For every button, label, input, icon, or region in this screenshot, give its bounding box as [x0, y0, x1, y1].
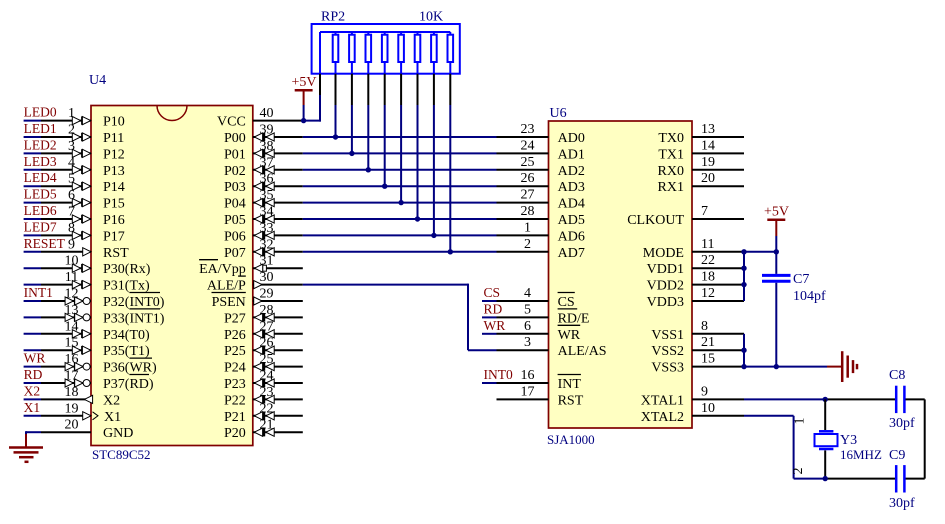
- U4 pin 24 (P23) stub: [253, 382, 303, 384]
- node LED3 net label: [24, 154, 57, 169]
- U4 pin name P03: [224, 180, 246, 195]
- U4 pin 20 (GND) stub: [41, 431, 91, 433]
- svg-text:LED7: LED7: [24, 219, 57, 234]
- node LED4 net label: [24, 170, 57, 185]
- svg-text:P32(INT0): P32(INT0): [103, 295, 165, 310]
- svg-text:20: 20: [701, 171, 715, 186]
- wire RP2 common lead down: [319, 32, 321, 122]
- U4 pin name P26: [224, 328, 246, 343]
- U6 pin number 14: [701, 138, 715, 153]
- U4 pin number 28: [260, 303, 274, 318]
- C8 designator label: [889, 368, 905, 383]
- wire crystal top to C8: [825, 398, 895, 400]
- node INT0 net label: [484, 367, 513, 382]
- wire net LED3 left: [24, 169, 41, 171]
- svg-text:16MHZ: 16MHZ: [840, 447, 882, 462]
- U4 pin 22 (P21) stub: [253, 415, 303, 417]
- junction XTAL1/crystal: [823, 397, 828, 402]
- RP2 common bus wire: [320, 31, 450, 33]
- node LED1 net label: [24, 121, 57, 136]
- U4 pin number 40: [260, 106, 274, 121]
- svg-text:18: 18: [701, 270, 715, 285]
- junction RP2 lead 7 on data bus: [431, 233, 436, 238]
- wire net pin 10 left: [24, 267, 41, 269]
- U4 pin 10 (P30(Rx)) stub: [41, 267, 91, 269]
- wire RP2 element 8 lead down: [449, 74, 451, 252]
- U6 pin name TX0: [658, 131, 684, 146]
- svg-text:P34(T0): P34(T0): [103, 328, 150, 343]
- svg-text:CLKOUT: CLKOUT: [627, 213, 684, 228]
- junction RP2 lead 6 on data bus: [415, 216, 420, 221]
- U4 pin number 21: [260, 418, 274, 433]
- resistor pack RP2 outline: [312, 24, 460, 74]
- overbar INT0 in P32: [129, 292, 160, 294]
- svg-text:VSS2: VSS2: [651, 344, 684, 359]
- svg-text:9: 9: [68, 237, 75, 252]
- power +5V symbol (right): [764, 205, 789, 252]
- junction RP2 lead 8 on data bus: [448, 249, 453, 254]
- U4 pin 14 IO arrows: [72, 330, 90, 338]
- U4 pin number 37: [260, 155, 274, 170]
- C8 value 30pf: [889, 416, 915, 431]
- svg-text:LED4: LED4: [24, 170, 57, 185]
- svg-text:11: 11: [701, 237, 714, 252]
- wire data bus P03 to AD3: [303, 185, 497, 187]
- svg-text:P33(INT1): P33(INT1): [103, 311, 165, 326]
- svg-text:+5V: +5V: [764, 205, 789, 220]
- U6 pin name VSS2: [651, 344, 684, 359]
- U4 pin number 7: [68, 205, 75, 220]
- svg-text:LED6: LED6: [24, 203, 57, 218]
- U4 pin number 18: [65, 385, 79, 400]
- svg-text:7: 7: [701, 204, 708, 219]
- svg-text:SJA1000: SJA1000: [547, 432, 595, 447]
- U4 pin 7 (P16) stub: [41, 218, 91, 220]
- wire net pin 13 left: [24, 316, 41, 318]
- junction RP2 lead 3 on data bus: [366, 167, 371, 172]
- U6 pin number 7: [701, 204, 708, 219]
- U6 pin 26 (AD3) stub: [497, 185, 549, 187]
- U4 pin 25 IO arrows: [254, 362, 274, 370]
- U6 pin 9 (XTAL1) stub: [692, 398, 744, 400]
- U6 pin name RX0: [658, 164, 684, 179]
- wire data bus P01 to AD1: [303, 152, 497, 154]
- U4 pin 17 IO arrows and bubble: [65, 379, 90, 387]
- U4 pin name P15: [103, 197, 125, 212]
- svg-text:U4: U4: [89, 73, 106, 88]
- U4 pin 37 (P02) stub: [253, 169, 303, 171]
- svg-text:9: 9: [701, 384, 708, 399]
- U4 pin number 24: [260, 369, 274, 384]
- svg-text:20: 20: [65, 418, 79, 433]
- U6 pin number 1: [524, 220, 531, 235]
- U4 pin number 2: [68, 123, 75, 138]
- U4 designator label: [89, 73, 106, 88]
- svg-text:15: 15: [701, 352, 715, 367]
- ground symbol left (U4 GND): [9, 434, 43, 462]
- wire net LED4 left: [24, 185, 41, 187]
- U4 pin 23 IO arrows: [254, 395, 274, 403]
- U4 pin name P25: [224, 344, 246, 359]
- U4 pin number 16: [65, 352, 79, 367]
- wire data bus P06 to AD6: [303, 234, 497, 236]
- U4 pin 33 IO arrows: [254, 231, 274, 239]
- junction VDD2 row bus: [741, 282, 746, 287]
- C7 designator label: [793, 272, 809, 287]
- U4 pin name P22: [224, 393, 246, 408]
- U4 pin 2 IO arrows: [72, 133, 90, 141]
- svg-text:GND: GND: [103, 426, 133, 441]
- svg-text:P21: P21: [224, 410, 246, 425]
- U4 pin number 12: [65, 287, 79, 302]
- U6 pin name AD2: [558, 164, 585, 179]
- U4 pin 26 IO arrows: [254, 346, 274, 354]
- svg-text:CS: CS: [484, 285, 501, 300]
- U6 pin number 24: [521, 138, 535, 153]
- U4 pin 29 output arrow: [254, 297, 262, 305]
- U4 pin number 35: [260, 188, 274, 203]
- U6 pin number 16: [521, 368, 535, 383]
- svg-text:P35(T1): P35(T1): [103, 344, 150, 359]
- U4 pin 38 IO arrows: [254, 149, 274, 157]
- svg-text:P20: P20: [224, 426, 246, 441]
- U4 pin 2 (P11) stub: [41, 136, 91, 138]
- U6 pin number 22: [701, 253, 715, 268]
- U6 pin name INT: [558, 377, 582, 392]
- U4 pin name P23: [224, 377, 246, 392]
- wire RP2 element 4 lead down: [384, 74, 386, 187]
- U6 pin number 9: [701, 384, 708, 399]
- U4 pin name P07: [224, 246, 246, 261]
- U4 pin 3 (P12) stub: [41, 152, 91, 154]
- svg-text:LED2: LED2: [24, 137, 57, 152]
- svg-text:10K: 10K: [419, 10, 443, 25]
- U4 pin 21 (P20) stub: [253, 431, 303, 433]
- U6 pin name AD1: [558, 147, 585, 162]
- U4 pin number 26: [260, 336, 274, 351]
- U6 pin number 3: [524, 335, 531, 350]
- U4 pin 28 IO arrows: [254, 313, 274, 321]
- wire net LED0 left: [24, 120, 41, 122]
- U6 pin 6 (WR) stub: [497, 333, 549, 335]
- svg-text:17: 17: [521, 384, 535, 399]
- op-amp U6 IC body SJA1000 outline: [549, 121, 693, 428]
- wire right vertical C8 to C9: [924, 399, 926, 478]
- svg-text:4: 4: [524, 286, 531, 301]
- svg-text:P30(Rx): P30(Rx): [103, 262, 151, 277]
- wire RP2 element 2 lead down: [351, 74, 353, 154]
- svg-text:P27: P27: [224, 311, 246, 326]
- U4 pin 27 IO arrows: [254, 330, 274, 338]
- wire net pin 11 left: [24, 284, 41, 286]
- U4 pin 6 IO arrows: [72, 198, 90, 206]
- wire VSS bus vertical: [743, 334, 745, 367]
- U4 pin name P10: [103, 115, 125, 130]
- wire data bus P05 to AD5: [303, 218, 497, 220]
- U6 pin name AD7: [558, 246, 585, 261]
- capacitor C9: [825, 465, 925, 492]
- U4 pin number 23: [260, 385, 274, 400]
- svg-text:VSS1: VSS1: [651, 328, 684, 343]
- U4 pin 27 (P26) stub: [253, 333, 303, 335]
- U6 pin name CS: [558, 295, 575, 310]
- U6 pin 10 (XTAL2) stub: [692, 415, 744, 417]
- U4 pin number 5: [68, 172, 75, 187]
- node X2 net label: [24, 383, 40, 398]
- junction crystal bottom: [823, 476, 828, 481]
- svg-text:104pf: 104pf: [793, 289, 826, 304]
- U4 pin 11 (P31(Tx)) stub: [41, 284, 91, 286]
- svg-text:C8: C8: [889, 368, 905, 383]
- ground symbol right (VSS): [827, 351, 857, 382]
- U4 pin number 25: [260, 352, 274, 367]
- svg-text:P10: P10: [103, 115, 125, 130]
- U6 pin number 2: [524, 237, 531, 252]
- U6 pin 24 (AD1) stub: [497, 152, 549, 154]
- svg-text:8: 8: [701, 319, 708, 334]
- U6 pin 12 (VDD3) stub: [692, 300, 744, 302]
- U6 pin name WR: [558, 328, 581, 343]
- svg-text:XTAL1: XTAL1: [641, 393, 684, 408]
- svg-text:28: 28: [521, 204, 535, 219]
- U4 pin name P24: [224, 361, 246, 376]
- U4 pin 12 IO arrows and bubble: [65, 297, 90, 305]
- svg-text:26: 26: [521, 171, 535, 186]
- node RD net label: [24, 367, 43, 382]
- U6 pin 1 (AD6) stub: [497, 234, 549, 236]
- U6 pin 2 (AD7) stub: [497, 251, 549, 253]
- U6 pin number 27: [521, 188, 535, 203]
- RP2 value 10K: [419, 10, 443, 25]
- U4 pin name P35(T1): [103, 344, 150, 359]
- U4 pin number 34: [260, 205, 274, 220]
- svg-text:VDD1: VDD1: [647, 262, 684, 277]
- svg-text:P04: P04: [224, 197, 246, 212]
- power +5V symbol (left, VCC): [292, 75, 317, 121]
- U4 pin 15 IO arrows: [72, 346, 90, 354]
- U6 pin 15 (VSS3) stub: [692, 366, 744, 368]
- U4 pin name P12: [103, 147, 125, 162]
- U6 pin 25 (AD2) stub: [497, 169, 549, 171]
- U4 pin name P17: [103, 229, 125, 244]
- U4 pin 19 clock arrow: [83, 412, 98, 420]
- wire RP2 element 7 lead down: [433, 74, 435, 236]
- svg-text:P15: P15: [103, 197, 125, 212]
- U6 pin number 28: [521, 204, 535, 219]
- RP2 designator label: [321, 10, 345, 25]
- U6 designator label: [550, 106, 567, 121]
- U6 pin number 21: [701, 335, 715, 350]
- U6 pin 21 (VSS2) stub: [692, 349, 744, 351]
- U6 pin 7 (CLKOUT) stub: [692, 218, 744, 220]
- U6 pin name RX1: [658, 180, 684, 195]
- svg-text:LED5: LED5: [24, 187, 57, 202]
- U6 pin 27 (AD4) stub: [497, 202, 549, 204]
- U4 pin 39 (P00) stub: [253, 136, 303, 138]
- U4 pin number 4: [68, 155, 75, 170]
- svg-text:PSEN: PSEN: [212, 295, 246, 310]
- U4 pin name P16: [103, 213, 125, 228]
- U6 pin name TX1: [658, 147, 684, 162]
- svg-text:P05: P05: [224, 213, 246, 228]
- svg-text:24: 24: [521, 138, 535, 153]
- U4 pin name X1: [104, 410, 121, 425]
- svg-text:P11: P11: [103, 131, 124, 146]
- svg-text:X2: X2: [24, 383, 40, 398]
- U4 pin 32 (P07) stub: [253, 251, 303, 253]
- U6 pin name AD6: [558, 229, 585, 244]
- U6 pin 20 (RX1) stub: [692, 185, 744, 187]
- svg-text:19: 19: [701, 155, 715, 170]
- svg-text:AD4: AD4: [558, 197, 585, 212]
- U4 pin 4 (P13) stub: [41, 169, 91, 171]
- U6 pin name XTAL2: [641, 410, 684, 425]
- svg-text:RD: RD: [484, 301, 503, 316]
- U4 pin 39 IO arrows: [254, 133, 274, 141]
- U4 pin number 20: [65, 418, 79, 433]
- U4 pin 34 (P05) stub: [253, 218, 303, 220]
- U4 pin number 19: [65, 401, 79, 416]
- wire net LED6 left: [24, 218, 41, 220]
- svg-text:P07: P07: [224, 246, 246, 261]
- U4 pin 12 (P32(INT0)) stub: [41, 300, 91, 302]
- svg-text:TX0: TX0: [658, 131, 684, 146]
- U6 pin name AD4: [558, 197, 585, 212]
- svg-text:ALE/P: ALE/P: [207, 279, 246, 294]
- U4 pin number 36: [260, 172, 274, 187]
- U4 pin number 22: [260, 401, 274, 416]
- capacitor C7: [762, 252, 791, 367]
- svg-text:P16: P16: [103, 213, 125, 228]
- svg-text:AD5: AD5: [558, 213, 585, 228]
- junction RP2 lead 5 on data bus: [398, 200, 403, 205]
- wire ALE/P to ALE/AS: [303, 284, 497, 351]
- U6 pin name AD5: [558, 213, 585, 228]
- U6 pin name VSS1: [651, 328, 684, 343]
- U6 pin number 20: [701, 171, 715, 186]
- U6 pin number 23: [521, 122, 535, 137]
- U4 pin name P00: [224, 131, 246, 146]
- U4 pin 9 input arrow: [83, 248, 91, 256]
- svg-text:2: 2: [791, 468, 806, 475]
- wire VSS3 to ground: [744, 366, 827, 368]
- wire XTAL1 to crystal: [744, 398, 825, 400]
- U4 pin number 3: [68, 139, 75, 154]
- svg-text:P24: P24: [224, 361, 246, 376]
- wire net X1 left: [24, 415, 41, 417]
- svg-text:WR: WR: [558, 328, 581, 343]
- U6 pin number 19: [701, 155, 715, 170]
- U4 pin 21 IO arrows: [254, 428, 274, 436]
- U6 pin 19 (RX0) stub: [692, 169, 744, 171]
- resistor RP2 element 3: [366, 32, 372, 74]
- svg-text:P06: P06: [224, 229, 246, 244]
- svg-text:XTAL2: XTAL2: [641, 410, 684, 425]
- svg-text:13: 13: [701, 122, 715, 137]
- U6 pin number 18: [701, 270, 715, 285]
- node WR net label: [24, 351, 46, 366]
- U4 pin name P33(INT1): [103, 311, 165, 326]
- U4 pin name P31(Tx): [103, 279, 150, 294]
- U4 pin name P20: [224, 426, 246, 441]
- U4 pin 37 IO arrows: [254, 166, 274, 174]
- resistor RP2 element 8: [448, 32, 454, 74]
- svg-text:C9: C9: [889, 448, 905, 463]
- U4 pin 24 IO arrows: [254, 379, 274, 387]
- svg-text:VSS3: VSS3: [651, 361, 684, 376]
- wire net CS stub: [482, 300, 497, 302]
- U6 pin 22 (VDD1) stub: [692, 267, 744, 269]
- U4 pin name P27: [224, 311, 246, 326]
- U4 part value STC89C52: [92, 447, 151, 462]
- resistor RP2 element 6: [415, 32, 421, 74]
- svg-text:1: 1: [793, 418, 808, 425]
- crystal Y3 pin number 1 (rotated): [793, 418, 808, 425]
- U6 pin number 26: [521, 171, 535, 186]
- U4 pin number 13: [65, 303, 79, 318]
- svg-text:6: 6: [524, 319, 531, 334]
- U4 pin name P04: [224, 197, 246, 212]
- Y3 designator label: [840, 433, 857, 448]
- junction RP2 lead 4 on data bus: [382, 184, 387, 189]
- U6 pin 28 (AD5) stub: [497, 218, 549, 220]
- svg-text:P23: P23: [224, 377, 246, 392]
- svg-text:X1: X1: [104, 410, 121, 425]
- svg-text:P22: P22: [224, 393, 246, 408]
- svg-text:1: 1: [524, 220, 531, 235]
- svg-text:29: 29: [260, 287, 274, 302]
- junction MODE and +5V/C7: [774, 249, 779, 254]
- U6 pin name RD/E: [558, 311, 590, 326]
- U4 pin name P34(T0): [103, 328, 150, 343]
- U6 pin number 25: [521, 155, 535, 170]
- svg-text:AD2: AD2: [558, 164, 585, 179]
- U4 pin 35 IO arrows: [254, 198, 274, 206]
- wire net LED2 left: [24, 152, 41, 154]
- svg-text:P37(RD): P37(RD): [103, 377, 154, 392]
- U4 pin name GND: [103, 426, 133, 441]
- U6 pin name VSS3: [651, 361, 684, 376]
- overbar INT (U6): [558, 374, 581, 376]
- svg-text:P03: P03: [224, 180, 246, 195]
- wire net RD left: [24, 382, 41, 384]
- wire RP2 element 6 lead down: [417, 74, 419, 219]
- resistor RP2 element 2: [349, 32, 355, 74]
- wire net LED7 left: [24, 234, 41, 236]
- U6 pin name MODE: [643, 246, 684, 261]
- svg-text:RST: RST: [103, 246, 129, 261]
- svg-text:22: 22: [701, 253, 715, 268]
- U4 pin 15 (P35(T1)) stub: [41, 349, 91, 351]
- U4 pin 30 output arrow: [254, 281, 262, 289]
- U6 pin name VDD2: [647, 279, 684, 294]
- U6 pin number 4: [524, 286, 531, 301]
- U4 pin 10 IO arrows: [72, 264, 90, 272]
- U4 pin 31 input arrow: [255, 264, 267, 272]
- svg-text:+5V: +5V: [292, 75, 317, 90]
- U4 pin name P13: [103, 164, 125, 179]
- U6 pin name XTAL1: [641, 393, 684, 408]
- U4 pin 36 IO arrows: [254, 182, 274, 190]
- U4 pin name P01: [224, 147, 246, 162]
- svg-text:LED1: LED1: [24, 121, 57, 136]
- svg-text:AD0: AD0: [558, 131, 585, 146]
- overbar RD in RD/E (U6): [558, 308, 578, 310]
- svg-text:P36(WR): P36(WR): [103, 361, 157, 376]
- U4 pin name P37(RD): [103, 377, 154, 392]
- svg-text:MODE: MODE: [643, 246, 684, 261]
- wire net LED1 left: [24, 136, 41, 138]
